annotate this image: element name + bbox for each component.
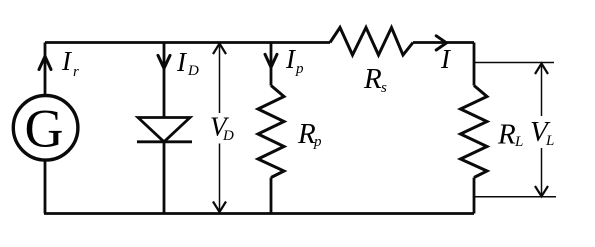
svg-text:r: r xyxy=(73,64,79,80)
svg-text:L: L xyxy=(514,134,523,150)
svg-text:G: G xyxy=(25,99,64,159)
svg-text:p: p xyxy=(313,134,322,150)
svg-text:I: I xyxy=(61,46,73,76)
svg-text:s: s xyxy=(381,80,387,96)
svg-text:D: D xyxy=(222,128,234,144)
svg-text:R: R xyxy=(497,119,516,151)
svg-text:p: p xyxy=(295,61,304,77)
svg-text:I: I xyxy=(440,44,452,74)
svg-text:D: D xyxy=(187,63,199,79)
svg-text:R: R xyxy=(363,63,382,95)
svg-text:L: L xyxy=(545,133,554,149)
svg-text:I: I xyxy=(176,47,188,77)
